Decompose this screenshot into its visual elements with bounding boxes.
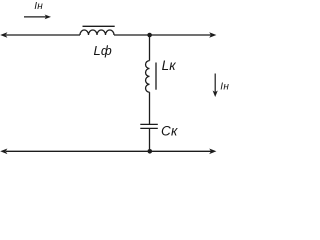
svg-text:Lф: Lф <box>94 43 113 58</box>
svg-text:Iн: Iн <box>34 1 43 12</box>
svg-text:Lк: Lк <box>162 58 177 73</box>
svg-text:Iн: Iн <box>220 81 229 92</box>
svg-text:Cк: Cк <box>161 123 178 138</box>
